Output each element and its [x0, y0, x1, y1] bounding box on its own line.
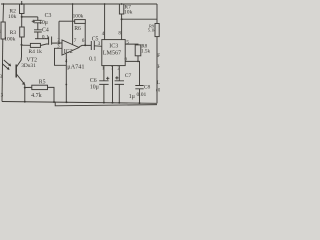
wire R8 bottom lead: [137, 56, 139, 62]
node ground junction VT2 emitter: [24, 101, 26, 103]
wire C4 bottom to coupling run: [37, 32, 39, 39]
wire pin4 stub and ground drop: [65, 54, 67, 102]
wire bottom ground rail: [2, 102, 157, 104]
node collector junction R3/R4/VT2: [21, 44, 23, 46]
node junction on ground drop: [65, 84, 67, 86]
svg-text:R6: R6: [74, 26, 81, 32]
svg-text:(0: (0: [156, 86, 160, 93]
wire emitter node to R5: [25, 86, 32, 88]
node ground junction op-amp ground drop: [66, 101, 68, 103]
svg-text:1μ: 1μ: [129, 94, 135, 100]
capacitor C3 plates: [34, 20, 42, 23]
svg-text:C8: C8: [144, 84, 151, 90]
node junction feedback tap on pin2 wire: [58, 42, 60, 44]
wire ground return lower line: [55, 102, 157, 106]
wire R5 right lead and drop: [48, 87, 55, 102]
capacitor C4 plates: [34, 30, 42, 32]
svg-text:10μ: 10μ: [90, 85, 99, 91]
svg-text:5: 5: [126, 40, 129, 46]
svg-text:100k: 100k: [4, 36, 15, 42]
wire IC3 pin8 lead: [121, 14, 123, 40]
svg-text:10μ: 10μ: [39, 20, 48, 26]
wire IC3 pin5 lead: [125, 43, 138, 46]
svg-text:LM567: LM567: [103, 51, 121, 57]
svg-text:0.1: 0.1: [89, 57, 96, 63]
node junction emitter/R5: [24, 87, 26, 89]
node top rail junction at R7: [121, 3, 123, 5]
wire op-amp output: [79, 45, 91, 47]
svg-text:C4: C4: [42, 27, 49, 33]
svg-text:3: 3: [98, 41, 101, 47]
resistor R2 10k vertical: [20, 4, 25, 14]
svg-text:6: 6: [125, 56, 128, 62]
svg-text:IC3: IC3: [109, 44, 118, 50]
resistor R4 1k horizontal: [30, 43, 40, 47]
wire IC3 pin7 ground lead: [112, 66, 114, 103]
wire pin3 lead elbow: [55, 48, 67, 65]
wire IC3 pin6 lead: [125, 61, 139, 85]
wire right rail upper: [156, 4, 158, 24]
node ground junction IC3 pin7: [112, 102, 114, 104]
op-amp U1 IC2 triangle: [62, 40, 79, 55]
node top rail junction at IC3 pin4 line: [104, 3, 106, 5]
wire feedback left vertical: [58, 21, 60, 43]
svg-text:10k: 10k: [8, 14, 17, 20]
wire pin8 to R9: [122, 18, 157, 20]
svg-text:0.1: 0.1: [42, 34, 49, 40]
resistor R3 100k vertical: [20, 27, 25, 37]
wire IC3 pin2 lead: [118, 66, 120, 81]
node junction feedback/output: [84, 44, 86, 46]
wire IC3 pin4 supply lead: [104, 4, 106, 40]
wire to op-amp pin 2: [52, 42, 62, 44]
svg-text:3: 3: [0, 74, 3, 80]
wire feedback right vertical to output: [84, 23, 86, 45]
wire C3 to C4: [37, 23, 39, 30]
svg-text:F: F: [157, 53, 160, 59]
transistor VT2 emitter arrowhead: [22, 82, 25, 85]
light arrow 1 into VT2: [4, 60, 11, 66]
wire C5 to IC3 pin3: [94, 45, 102, 48]
svg-text:6: 6: [82, 38, 85, 44]
resistor R1 vertical (label cut off at crop): [1, 22, 5, 39]
transistor Q1 VT2 3DU31 base bar: [15, 65, 17, 78]
light arrow 2 into VT2: [2, 64, 9, 70]
resistor R5 4.7k horizontal: [32, 85, 48, 89]
capacitor C6 10u plus sign: [106, 77, 109, 80]
svg-text:8: 8: [118, 30, 121, 36]
svg-text:7: 7: [74, 38, 77, 44]
svg-text:R4 1k: R4 1k: [28, 49, 42, 55]
node top rail junction at R2: [21, 3, 23, 5]
svg-text:3: 3: [57, 44, 60, 50]
wire left rail upper: [2, 4, 5, 22]
svg-text:μA741: μA741: [67, 64, 84, 71]
svg-text:10k: 10k: [124, 10, 133, 16]
svg-text:C3: C3: [45, 13, 52, 19]
wire C8 to ground: [139, 89, 141, 103]
wire IC3 pin1 lead: [103, 66, 105, 81]
resistor R6 100k horizontal feedback: [75, 20, 86, 24]
wire right rail lower: [156, 37, 158, 104]
svg-text:4: 4: [102, 31, 105, 37]
node B junction R2/R3/C3 wire: [21, 16, 23, 18]
resistor R7 10k vertical pull-up: [119, 4, 123, 14]
wire R4 left lead: [22, 44, 31, 46]
svg-text:C7: C7: [125, 73, 132, 79]
wire R2 bottom lead to node B: [21, 14, 23, 28]
node ground junction C6: [103, 102, 105, 104]
node ground junction C7: [118, 102, 120, 104]
node ground junction R5 drop: [53, 101, 55, 103]
capacitor C7 1u plus sign: [115, 76, 118, 79]
wire feedback top horizontal: [59, 20, 75, 22]
wire R3 bottom to collector node: [21, 37, 23, 58]
wire top supply rail: [1, 3, 157, 5]
wire left rail lower: [1, 39, 4, 102]
wire R4 right lead to coupling cap: [40, 44, 48, 46]
node top rail junction at left rail: [3, 3, 5, 5]
resistor R8 1.5k vertical: [135, 45, 141, 56]
node junction pin8/R9 wire: [121, 18, 123, 20]
svg-text:L: L: [157, 80, 160, 86]
wire +V terminal stub above rail: [21, 1, 23, 4]
svg-text:4.7k: 4.7k: [31, 93, 41, 99]
resistor R9 5.1k vertical (cut at crop edge): [155, 24, 159, 37]
svg-text:R3: R3: [10, 30, 17, 36]
capacitor C8 0.01 plates: [135, 86, 143, 89]
svg-text:R5: R5: [39, 79, 46, 85]
svg-text:1.5k: 1.5k: [141, 48, 150, 54]
node top rail junction at op-amp pin7 line: [72, 3, 74, 5]
capacitor C7 plates: [115, 81, 124, 85]
wire C6 to ground: [103, 84, 105, 102]
wire node B to C3 column: [22, 16, 38, 18]
svg-text:IC2: IC2: [64, 49, 73, 55]
svg-text:C6: C6: [90, 78, 97, 84]
wire VT2 emitter down to rail: [24, 85, 26, 102]
wire pin7 supply line: [72, 4, 74, 45]
svg-text:5.1k: 5.1k: [148, 28, 156, 33]
svg-text:3Du31: 3Du31: [21, 63, 36, 69]
transistor VT2 collector lead: [16, 58, 21, 68]
capacitor series coupling plates at op-amp input: [49, 37, 52, 45]
transistor VT2 emitter lead: [16, 74, 24, 85]
IC U2 IC3 LM567 box: [102, 40, 125, 66]
wire C7 to ground: [118, 84, 120, 102]
wire coupling run horizontal: [35, 38, 49, 40]
node junction R8/pin6 wire: [137, 61, 139, 63]
svg-text:H: H: [157, 64, 160, 70]
capacitor C3 10u electrolytic stub: [37, 17, 39, 20]
svg-text:0.01: 0.01: [137, 92, 147, 98]
svg-text:100k: 100k: [73, 14, 84, 20]
capacitor C5 0.1 series plates: [91, 41, 94, 50]
capacitor C6 plates: [99, 81, 108, 85]
capacitor C3 plus sign: [32, 20, 35, 23]
node ground junction C8: [139, 102, 141, 104]
